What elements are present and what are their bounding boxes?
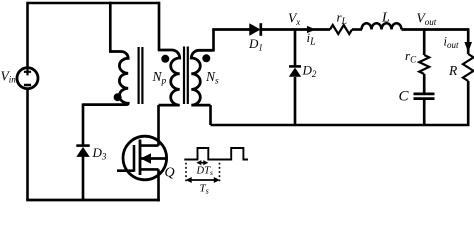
- resistor rC: [419, 55, 429, 74]
- polarity dot Ns: [202, 54, 210, 62]
- svg-text:L: L: [381, 11, 390, 26]
- current arrow iL: [307, 26, 316, 33]
- wire output top rail: Ns corner to D1: [212, 28, 250, 31]
- dashed marker left: [185, 159, 187, 184]
- wire D3 branch vertical (bottom): [82, 156, 85, 200]
- wire L to Vout node to R corner: [402, 28, 469, 31]
- svg-text:R: R: [448, 63, 458, 78]
- wire reset-winding top branch: [109, 2, 112, 52]
- current arrow iout: [464, 42, 472, 52]
- wire secondary top corner up to output rail: [212, 30, 215, 52]
- wire top rail: [28, 2, 160, 5]
- diode D3: [76, 146, 89, 157]
- wire bottom rail: [26, 199, 160, 202]
- resistor rL: [330, 25, 352, 34]
- transformer core 1: [139, 47, 143, 104]
- wire left vertical from top rail to source: [26, 2, 29, 68]
- svg-text:C: C: [399, 89, 410, 105]
- dimension arrow DTs: [196, 160, 208, 165]
- winding Np primary: [158, 50, 180, 105]
- wire MOSFET source to bottom rail: [157, 169, 160, 201]
- gate pulse waveform: [184, 148, 248, 160]
- dashed marker right: [219, 159, 221, 184]
- wire R bottom to rail: [467, 81, 470, 125]
- wire C bottom to rail: [423, 100, 426, 125]
- transistor Q (MOSFET): [117, 136, 167, 180]
- diode D1: [249, 23, 260, 36]
- wire output bottom rail: [211, 124, 470, 127]
- polarity dot Np: [161, 55, 169, 63]
- winding Nr (reset winding): [83, 52, 128, 105]
- wire R branch top: [467, 28, 470, 54]
- wire rC to C: [423, 74, 426, 93]
- transformer core 2: [184, 47, 188, 105]
- wire Ns bottom corner down: [209, 105, 212, 125]
- wire primary top lead vertical: [158, 2, 161, 50]
- winding Ns secondary: [191, 50, 213, 105]
- wire D1 to Vx node: [261, 28, 331, 31]
- polarity dot reset winding: [114, 93, 122, 101]
- wire D2 branch upper: [294, 30, 297, 66]
- inductor L: [362, 23, 402, 29]
- capacitor C: [414, 94, 435, 99]
- wire rC branch top: [423, 30, 426, 56]
- source Vin: [17, 68, 38, 89]
- wire Np bottom lead to MOSFET drain: [157, 105, 160, 146]
- diode D2: [289, 66, 301, 76]
- svg-text:Q: Q: [165, 166, 175, 181]
- wire D3 branch vertical (top): [82, 103, 85, 145]
- wire D2 branch lower: [294, 77, 297, 125]
- resistor R: [463, 54, 474, 81]
- wire rL to L: [352, 28, 362, 31]
- dimension arrow Ts: [186, 177, 220, 183]
- wire left vertical from source to bottom rail: [26, 88, 29, 200]
